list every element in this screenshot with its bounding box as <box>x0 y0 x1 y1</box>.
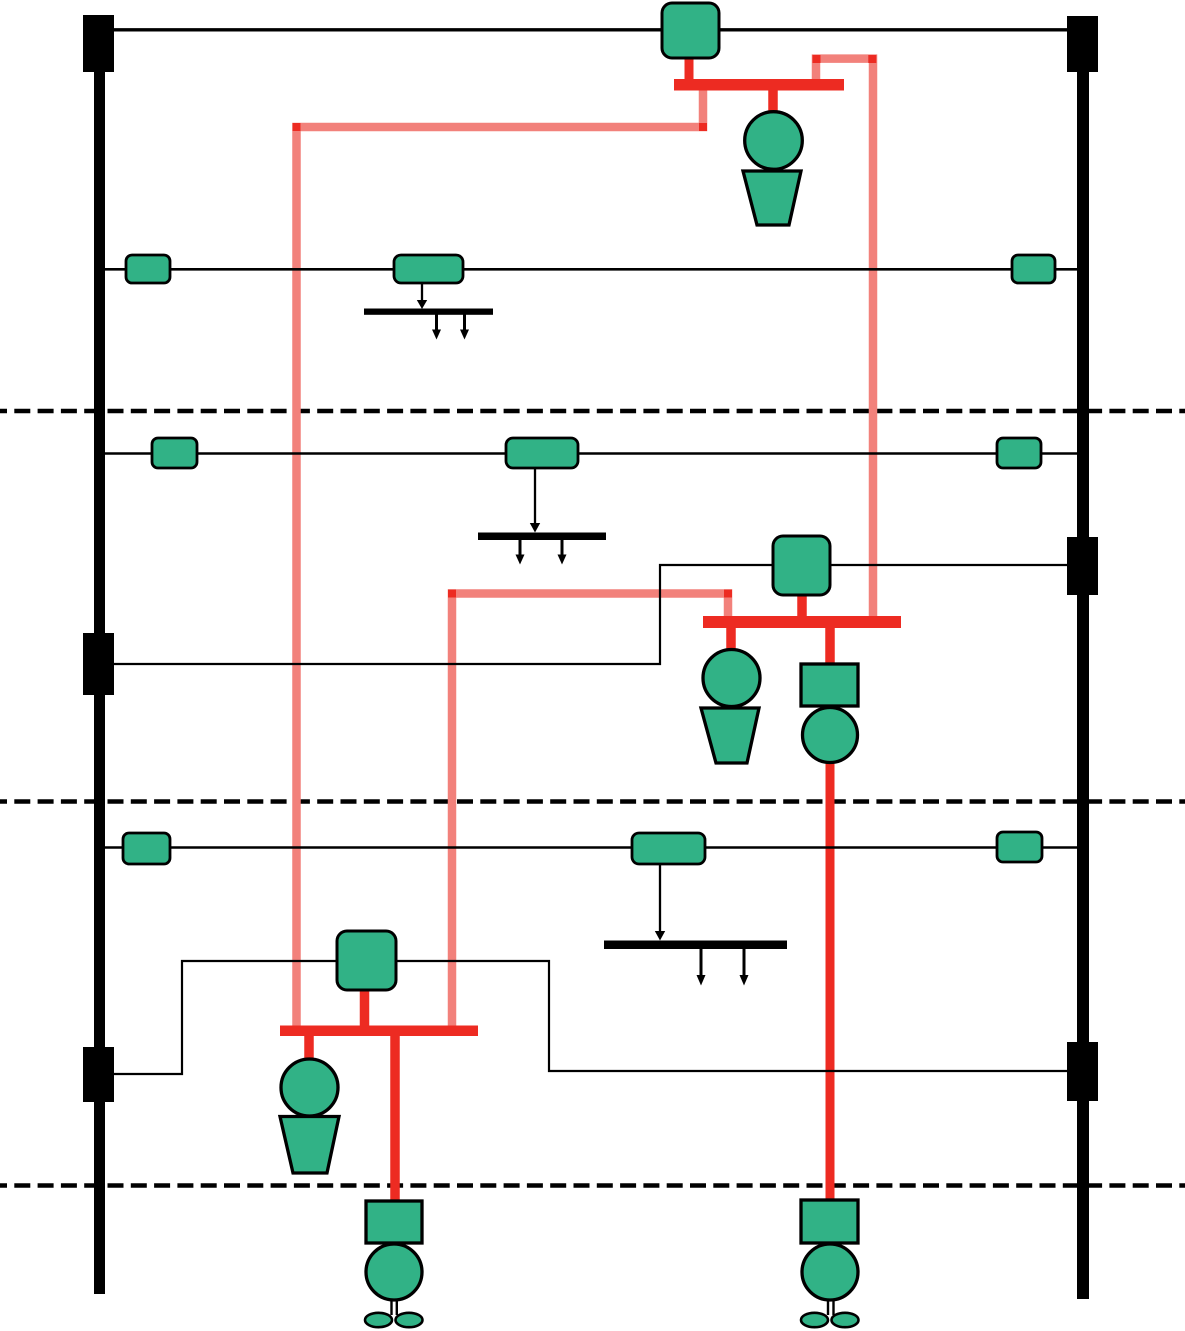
right bus node rect mid <box>1067 537 1098 595</box>
left bus node rect low <box>83 1047 114 1102</box>
breaker SQ1 top <box>662 3 719 58</box>
machine B2 square <box>801 1200 858 1243</box>
dashed separator 2 <box>0 799 1185 804</box>
right bus node rect top <box>1067 16 1098 72</box>
salmon feeder S1 <box>297 88 704 1030</box>
load 2 bar <box>478 533 606 541</box>
transformer T3 trapezoid <box>280 1117 339 1174</box>
wire row3 horizontal <box>99 452 1083 455</box>
red stub bar2 to transformer T2 <box>726 628 736 655</box>
load 1 arrow drop <box>417 283 427 309</box>
wire row4 horizontal <box>99 846 1083 849</box>
machine B2 circle <box>802 1244 858 1300</box>
machine B2 stub lines <box>827 1299 829 1315</box>
breaker row3 right <box>997 438 1041 468</box>
red bus bar 1 <box>674 79 844 91</box>
breaker row2 left <box>126 255 170 283</box>
winding W1 circle <box>803 708 858 763</box>
winding W1 square <box>801 664 858 706</box>
breaker SQ3 low <box>337 931 396 990</box>
salmon feeder S3 <box>452 594 728 1031</box>
breaker row3 left <box>152 438 197 468</box>
breaker SQ2 mid <box>773 536 830 595</box>
breaker row4 right <box>997 832 1042 862</box>
load 2 arrow drop <box>530 468 540 533</box>
transformer T3 circle <box>281 1059 338 1116</box>
red long feeder W1 to B2 <box>826 758 835 1204</box>
red stub SQ3 to bar3 <box>360 988 370 1027</box>
right bus <box>1077 20 1089 1299</box>
wire step line B to lower feeder breaker <box>114 961 1067 1074</box>
red long feeder bar3 to B1 <box>390 1036 400 1204</box>
red stub bar1 to transformer T1 <box>768 90 778 120</box>
red stub SQ1 to bar1 <box>685 56 694 80</box>
salmon feeder S2 <box>816 59 873 620</box>
machine B1 stub lines <box>390 1299 392 1315</box>
transformer T1 circle <box>745 112 803 170</box>
transformer T1 trapezoid <box>743 171 801 225</box>
red stub bar2 to winding W1 <box>825 628 835 668</box>
dashed separator 1 <box>0 409 1185 414</box>
left bus <box>94 20 105 1294</box>
right bus node rect low <box>1067 1042 1098 1101</box>
red stub bar3 to transformer T3 <box>304 1036 314 1062</box>
load 1 bar <box>364 309 493 315</box>
transformer T2 trapezoid <box>701 708 759 763</box>
transformer T2 circle <box>703 650 760 707</box>
machine B1 square <box>366 1201 422 1243</box>
red bus bar 3 <box>280 1026 478 1037</box>
wire row1 top horizontal <box>112 28 1069 31</box>
breaker row2 mid <box>394 255 463 283</box>
machine B2 foot ellipses <box>801 1313 828 1327</box>
left bus node rect mid <box>83 633 114 695</box>
load 3 down arrows <box>697 949 749 986</box>
breaker row3 mid <box>506 438 578 468</box>
machine B1 circle <box>366 1244 422 1300</box>
wire row2 horizontal <box>99 268 1083 271</box>
left bus node rect top <box>83 15 114 72</box>
breaker row4 mid <box>632 833 705 864</box>
load 1 down arrows <box>432 314 469 340</box>
red stub SQ2 to bar2 <box>797 593 807 617</box>
wire step line A to mid feeder breaker <box>114 565 1067 664</box>
load 3 arrow drop <box>655 864 665 941</box>
machine B1 foot ellipses <box>365 1313 392 1327</box>
breaker row4 left <box>123 833 170 864</box>
load 2 down arrows <box>516 540 567 565</box>
red bus bar 2 <box>703 616 901 628</box>
load 3 bar <box>604 941 787 950</box>
dashed separator 3 <box>0 1183 1185 1188</box>
red junction dots on salmon corners <box>293 55 877 598</box>
breaker row2 right <box>1012 255 1055 283</box>
